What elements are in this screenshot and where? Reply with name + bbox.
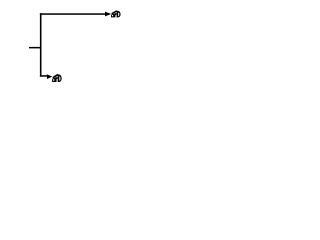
wire top branch horizontal	[40, 13, 106, 15]
wire left stub	[29, 47, 42, 49]
arrowhead bottom	[47, 74, 52, 79]
node icon bottom	[52, 74, 62, 82]
node icon top	[111, 10, 121, 17]
wire trunk vertical	[40, 13, 42, 76]
wire bottom branch horizontal	[40, 75, 47, 77]
arrowhead top	[105, 12, 111, 17]
